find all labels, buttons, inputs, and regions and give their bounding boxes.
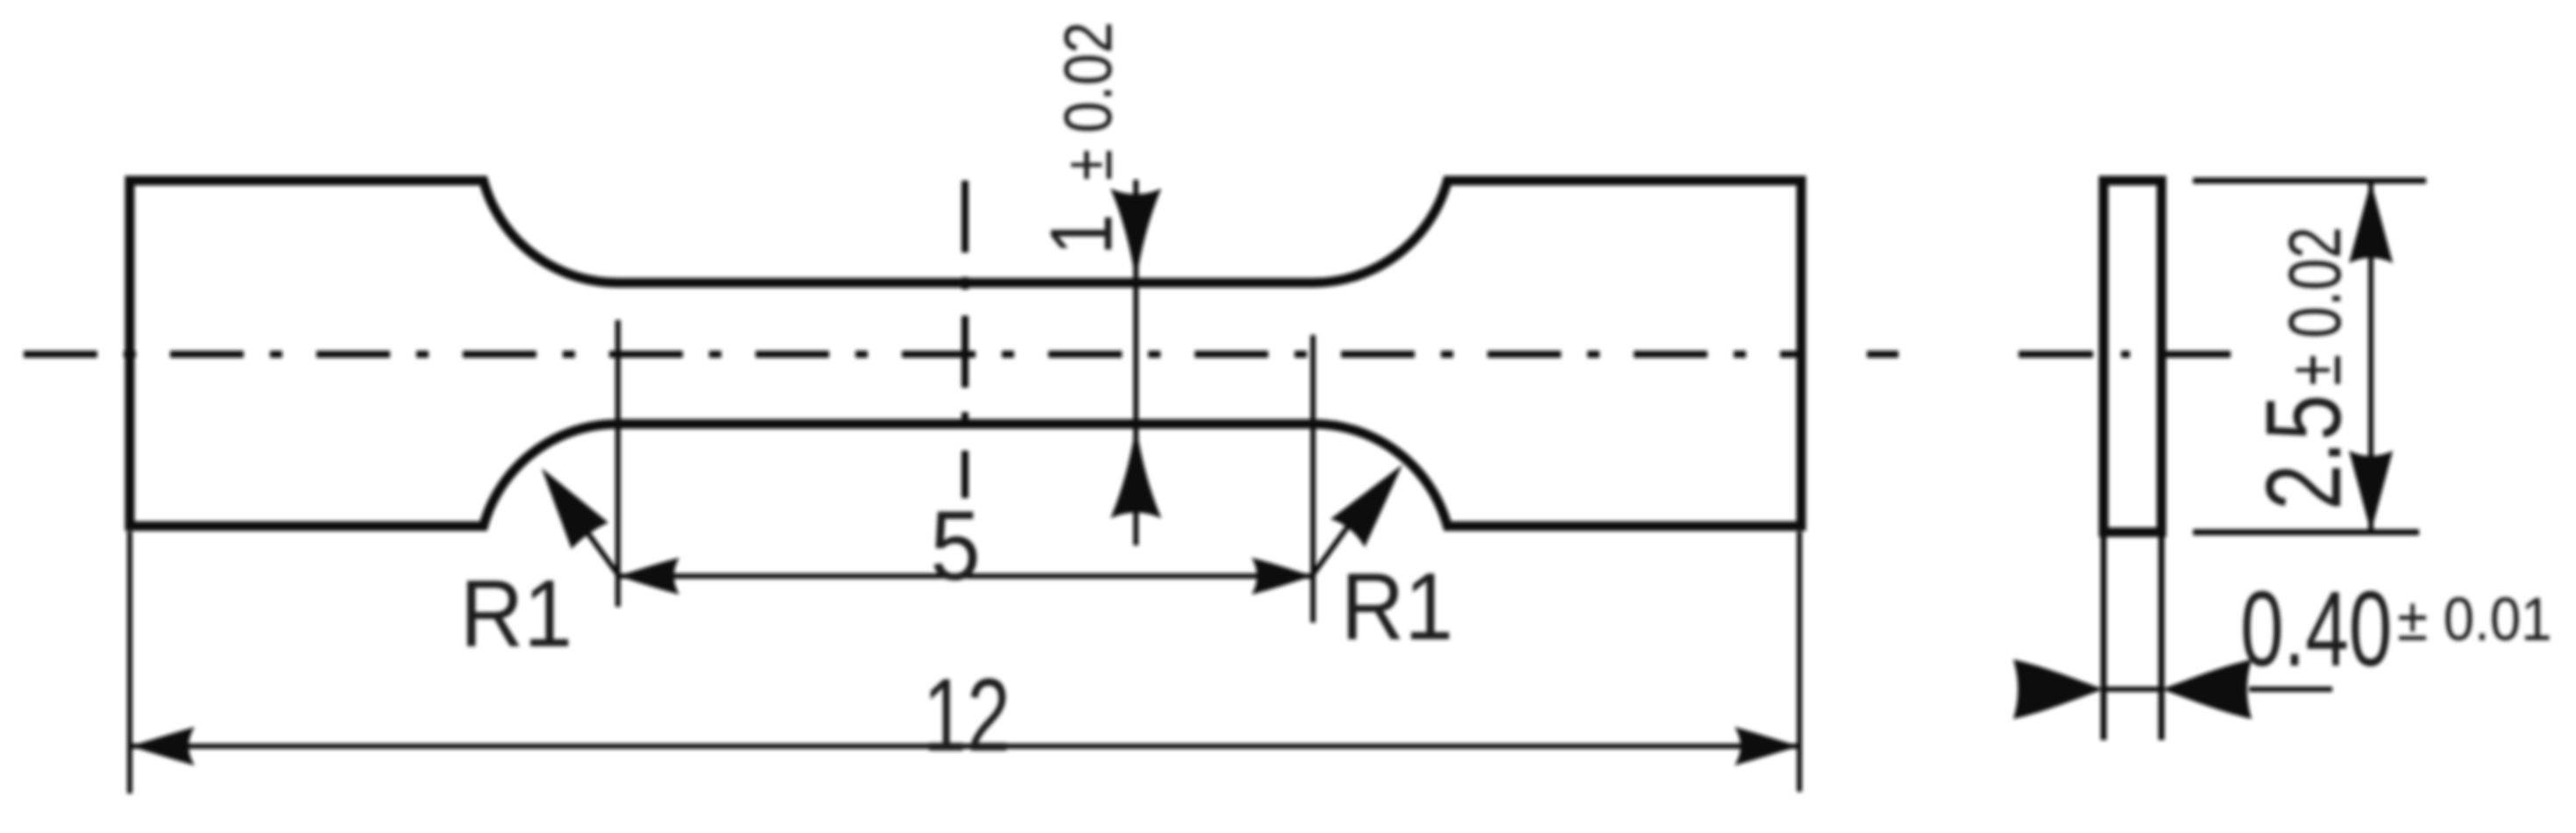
svg-text:R1: R1	[1341, 553, 1453, 660]
svg-text:0.40: 0.40	[2240, 568, 2392, 688]
svg-text:5: 5	[930, 491, 980, 601]
svg-text:R1: R1	[460, 560, 572, 667]
svg-text:± 0.01: ± 0.01	[2397, 585, 2552, 653]
svg-text:12: 12	[923, 658, 1011, 773]
